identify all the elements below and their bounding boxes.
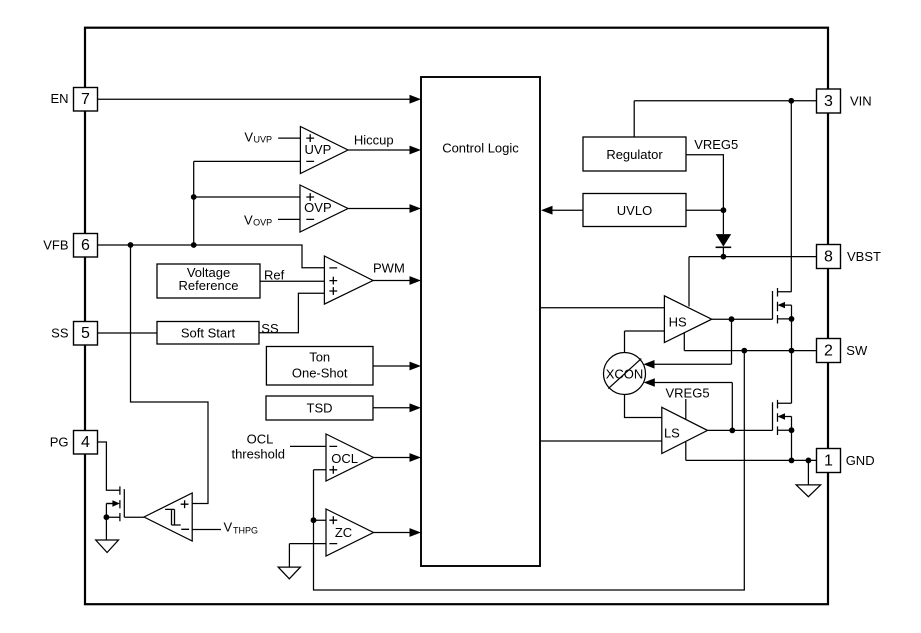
svg-text:Reference: Reference: [179, 278, 239, 293]
svg-text:VREG5: VREG5: [694, 137, 738, 152]
svg-text:3: 3: [824, 93, 833, 110]
svg-text:V: V: [244, 129, 253, 144]
svg-text:UVP: UVP: [305, 142, 332, 157]
svg-text:PWM: PWM: [373, 261, 405, 276]
svg-text:HS: HS: [669, 314, 687, 329]
svg-text:GND: GND: [846, 453, 875, 468]
svg-text:VFB: VFB: [43, 238, 68, 253]
svg-text:Ton: Ton: [309, 350, 330, 365]
svg-text:OCL: OCL: [247, 431, 274, 446]
svg-text:EN: EN: [50, 91, 68, 106]
svg-text:Soft Start: Soft Start: [181, 325, 236, 340]
svg-text:One-Shot: One-Shot: [292, 366, 348, 381]
svg-text:UVP: UVP: [254, 134, 273, 144]
svg-text:8: 8: [824, 249, 833, 266]
svg-text:Control Logic: Control Logic: [442, 141, 519, 156]
svg-text:Ref: Ref: [264, 267, 285, 282]
svg-text:V: V: [224, 519, 233, 534]
svg-text:PG: PG: [50, 435, 69, 450]
svg-text:VBST: VBST: [847, 249, 881, 264]
svg-text:6: 6: [81, 237, 90, 254]
svg-text:UVLO: UVLO: [617, 203, 652, 218]
svg-text:ZC: ZC: [335, 525, 352, 540]
svg-text:7: 7: [81, 91, 90, 108]
svg-text:LS: LS: [664, 426, 680, 441]
svg-text:TSD: TSD: [307, 401, 333, 416]
svg-text:OCL: OCL: [331, 451, 358, 466]
svg-text:Hiccup: Hiccup: [354, 132, 394, 147]
svg-text:Regulator: Regulator: [606, 147, 663, 162]
svg-text:threshold: threshold: [231, 446, 284, 461]
svg-text:4: 4: [81, 434, 90, 451]
svg-text:OVP: OVP: [304, 200, 331, 215]
svg-text:OVP: OVP: [253, 218, 272, 228]
svg-text:THPG: THPG: [233, 525, 258, 535]
svg-text:1: 1: [824, 453, 833, 470]
svg-text:SS: SS: [261, 321, 279, 336]
svg-text:SS: SS: [51, 325, 69, 340]
svg-text:V: V: [244, 213, 253, 228]
svg-text:5: 5: [81, 325, 90, 342]
svg-text:SW: SW: [846, 343, 868, 358]
svg-text:VIN: VIN: [850, 93, 872, 108]
svg-text:XCON: XCON: [606, 366, 644, 381]
svg-text:VREG5: VREG5: [666, 385, 710, 400]
svg-text:2: 2: [824, 342, 833, 359]
